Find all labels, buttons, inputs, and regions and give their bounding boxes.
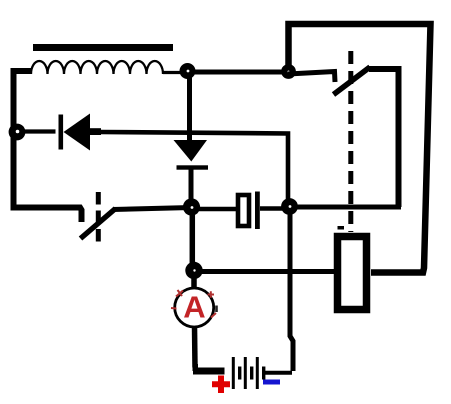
dashed link line S1 [96, 192, 101, 242]
wire node C to diode D1 [23, 129, 56, 133]
ammeter tick marks [176, 290, 183, 297]
svg-text:A: A [183, 290, 205, 325]
battery minus label [263, 380, 280, 385]
battery plus label [212, 376, 230, 394]
node A [180, 63, 196, 79]
node D [183, 198, 200, 215]
wire battery right [265, 371, 292, 375]
wire D1 to corner down to node E [100, 132, 288, 203]
wire switch S2 to inner loop [369, 69, 399, 207]
wire node E to inner loop [296, 205, 401, 210]
wire node D to capacitor [199, 207, 236, 212]
node B [281, 64, 296, 79]
wire S1 to node D [113, 208, 192, 210]
wire capacitor to node E [260, 206, 284, 211]
inductor L1 [31, 61, 163, 74]
diode D1 anode stub [89, 128, 101, 135]
wire node D to node F [190, 214, 196, 264]
node F [185, 262, 202, 279]
wire ammeter to battery [192, 326, 198, 368]
node E [281, 198, 298, 215]
wire D2 to node D [189, 168, 194, 202]
switch S1 blade [81, 209, 116, 239]
diode D2 cathode bar [177, 165, 209, 169]
diode D2 anode wire [187, 76, 192, 141]
diode D1 triangle [64, 114, 91, 151]
wire node A to node B [193, 70, 288, 75]
wire left vertical with bottom horizontal and hook [14, 71, 82, 222]
diode D1 cathode bar [59, 115, 64, 150]
dashed link line (S2 to relay) [348, 51, 353, 232]
wire coil to node A [163, 71, 181, 74]
capacitor C1 left plate (open) [238, 195, 249, 226]
relay K1 [338, 237, 367, 310]
wire node F to relay [202, 269, 336, 274]
ammeter A1 [175, 288, 214, 327]
wire node E down to battery plus jog [290, 212, 293, 371]
capacitor C1 right plate [255, 192, 260, 230]
switch S2 blade [334, 67, 371, 95]
wire node F down to ammeter [191, 277, 197, 292]
magnet bar [33, 44, 173, 51]
wire outer loop [289, 24, 431, 273]
wire node B to switch S2 [288, 72, 335, 83]
battery B1 plates [232, 357, 235, 389]
diode D2 triangle [174, 140, 208, 162]
node C [9, 124, 26, 141]
dash tick above relay [338, 226, 345, 230]
